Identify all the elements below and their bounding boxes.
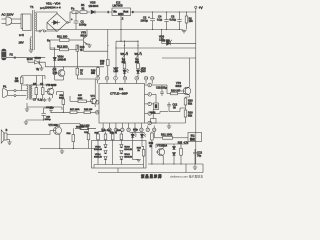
ground bottom mid [60,149,64,154]
transistor VT8 [80,30,90,45]
resistor R5 [33,83,38,99]
fuse F2 [2,49,14,60]
resistor R14 [75,124,96,129]
LED VD8 [136,67,146,77]
wire mid feed [116,40,196,77]
diode VD14 [50,48,67,67]
svg-text:1N4148: 1N4148 [124,157,132,159]
resistor R26 [91,67,99,77]
resistor R19 [169,108,193,121]
svg-text:0.1μ: 0.1μ [38,99,43,102]
svg-text:復位: 復位 [190,137,196,141]
resistor R33 [116,130,122,144]
connector P1 [3,85,27,98]
svg-text:1N4004: 1N4004 [89,4,99,8]
capacitor C5 [40,83,44,99]
capacitor C1 [71,12,87,30]
resistor R16 [100,30,109,77]
transformer T2 [27,84,32,100]
resistor R7 [76,67,95,79]
speaker B [1,129,50,143]
wire mid rail [45,66,104,68]
ground VT8 [87,44,91,47]
plug P [2,17,22,25]
wire VT8 to R16 [84,43,108,51]
svg-text:Fu: Fu [71,7,75,11]
svg-text:9014: 9014 [162,144,168,147]
capacitor C6 [53,67,58,80]
resistor R25 [178,142,189,164]
junction dots mid rail [54,47,98,67]
capacitor C13a [84,128,90,148]
resistor R24 [67,128,75,148]
ground T1 [29,48,34,52]
svg-text:VT6 9013: VT6 9013 [46,84,57,87]
LED pair VD9 [130,130,147,160]
resistor R15 [137,147,145,165]
transistor VT7 [55,67,65,80]
node + output [67,12,72,23]
resistor R17 [51,109,84,114]
svg-text:2P2C: 2P2C [35,57,41,60]
label 18V [19,41,24,45]
svg-text:1000μ: 1000μ [141,18,149,22]
svg-text:F2: F2 [10,52,14,56]
wire row y75.5 [22,76,45,86]
svg-text:1N4148: 1N4148 [94,149,102,151]
transistor VT3 [176,58,191,97]
svg-text:VT5 9014: VT5 9014 [49,125,60,127]
svg-text:1000μ: 1000μ [79,22,87,26]
resistor R21 [154,132,188,140]
junction dots bottom [43,11,187,164]
svg-text:Vout: Vout [123,9,128,13]
svg-text:LED: LED [114,70,119,73]
svg-text:P1: P1 [3,85,7,89]
capacitor C10 [41,106,51,121]
svg-text:100: 100 [100,63,105,66]
terminal +V [195,6,204,10]
svg-text:R11 180: R11 180 [57,34,68,38]
resistor R30 [95,132,104,165]
pot W1-2 [121,52,129,59]
diode chain VD13 VD14 VD15 [94,144,107,165]
display box [92,141,147,169]
svg-text:100: 100 [189,20,194,23]
svg-text:70p: 70p [197,154,202,157]
svg-text:R32 75: R32 75 [110,133,118,135]
wire right links [152,94,157,103]
bottom right rail [148,163,203,165]
capacitor CC2 [193,149,202,164]
caption LCD [141,174,162,179]
IC1 main [99,84,145,124]
diode VD15 VD16 [172,144,175,164]
capacitor C9 [46,106,54,112]
ground C7 [48,97,52,101]
wire Vout rail [131,8,196,12]
svg-text:R18: R18 [149,143,154,145]
svg-text:Vin: Vin [113,9,117,13]
wire primary [21,14,23,29]
bridge rectifier [47,14,67,32]
SCR [27,57,45,68]
svg-text:1000μ: 1000μ [45,119,52,121]
transistor VT4 [91,79,97,107]
capacitor C11 [152,85,168,96]
bottom bus [98,164,203,173]
LED VD7 [114,67,129,77]
resistor R8 [122,53,127,70]
right bus [195,12,197,164]
svg-text:C7TLE—36/P: C7TLE—36/P [110,92,128,96]
svg-text:1N4148: 1N4148 [124,149,132,151]
switch S1 [36,29,57,32]
ground display [133,160,141,162]
box S11 [188,133,202,142]
svg-text:R23 100: R23 100 [84,109,93,111]
resistor R2 [185,12,193,30]
IC1 bottom pins [101,123,156,132]
svg-text:IC1: IC1 [119,87,124,91]
resistor R10 [162,85,185,95]
resistor R32 [110,132,118,165]
resistor R4 [15,76,24,91]
AC 220V label [2,13,14,17]
wire bottom mid rail [40,148,95,150]
wire y58 right [162,57,196,59]
label n=2 [19,33,24,37]
capacitor C7 [33,98,46,102]
resistor R11 [47,34,80,42]
wire fuse rail [6,57,45,59]
svg-text:AC 220V: AC 220V [2,13,14,17]
wire pins to left nets [94,106,96,108]
svg-text:dzdiancn.com 电子发烧友: dzdiancn.com 电子发烧友 [170,173,203,178]
ground rail end [182,30,187,33]
resistor R9 [135,53,140,70]
crystal B1 [150,103,159,114]
wire row y107 [27,103,62,110]
capacitor C4 [157,12,169,30]
resistor R14 [60,124,96,130]
fuse F1 [71,7,80,14]
svg-text:C8 30μ: C8 30μ [162,40,170,43]
diode chain VD10 VD12 [120,144,133,165]
regulator IC2 LM7805 [108,0,135,41]
svg-text:0.01μ: 0.01μ [161,86,168,89]
resistor R13 [76,45,85,67]
IC1 top pins [96,76,154,83]
bottom display rail [94,165,144,168]
svg-text:0.01μ: 0.01μ [170,17,177,21]
wire - output [46,23,48,30]
svg-text:18V: 18V [19,41,24,45]
resistor R23 [84,109,95,114]
ground right mid [152,121,186,128]
wire row y120 [26,119,44,121]
svg-text:9013: 9013 [176,84,182,88]
node Vg ground [36,68,44,71]
IC1 left pins [95,101,99,115]
resistor R18 [149,132,154,164]
svg-text:1N4148: 1N4148 [58,58,67,61]
svg-text:LM7805: LM7805 [113,4,124,8]
resistor R31 [102,130,111,144]
svg-text:1N4004 × 4: 1N4004 × 4 [45,6,61,10]
capacitor C2 [141,12,155,30]
transformer T1 [23,5,37,50]
svg-text:300: 300 [91,72,96,75]
resistor R20 [184,97,193,108]
svg-text:R17 100k: R17 100k [70,109,80,111]
capacitor C3 [170,12,182,30]
resistor R22 [57,92,65,113]
ground rail [47,29,183,31]
svg-text:液晶显示屏: 液晶显示屏 [141,174,162,179]
wire right bottom row [156,142,188,173]
transistor VT6 [45,84,57,98]
pot W1-1 [135,52,143,59]
transistor VT2 [156,144,168,158]
ground speaker [7,142,11,144]
svg-text:1N4148: 1N4148 [94,157,102,159]
watermark [170,173,203,178]
transistor VT5 [49,124,62,149]
wire AC top [36,12,57,14]
wire top feed row [22,84,56,86]
pin numbers [96,78,157,132]
capacitor C12 [152,102,178,113]
resistor R1 [80,3,90,13]
svg-text:VT4: VT4 [91,96,96,98]
ground y108 [25,107,29,111]
resistor R12 [50,40,77,51]
svg-text:51: 51 [82,6,86,10]
svg-text:T1: T1 [30,5,34,9]
resistor R27 [70,95,91,102]
diode VD5 [89,1,113,14]
ground bottom right [193,164,197,169]
ground y121 [24,120,28,124]
IC1 right pins [145,83,152,125]
svg-text:n=2: n=2 [19,33,24,37]
svg-text:R21 100k: R21 100k [161,133,173,137]
svg-text:SCR: SCR [27,57,33,61]
capacitor C13 [151,110,157,124]
bridge VD1-VD4 label [45,2,61,10]
label n=1 [40,6,45,10]
LED VD6 [159,30,196,46]
svg-text:0.1μ: 0.1μ [157,17,163,21]
